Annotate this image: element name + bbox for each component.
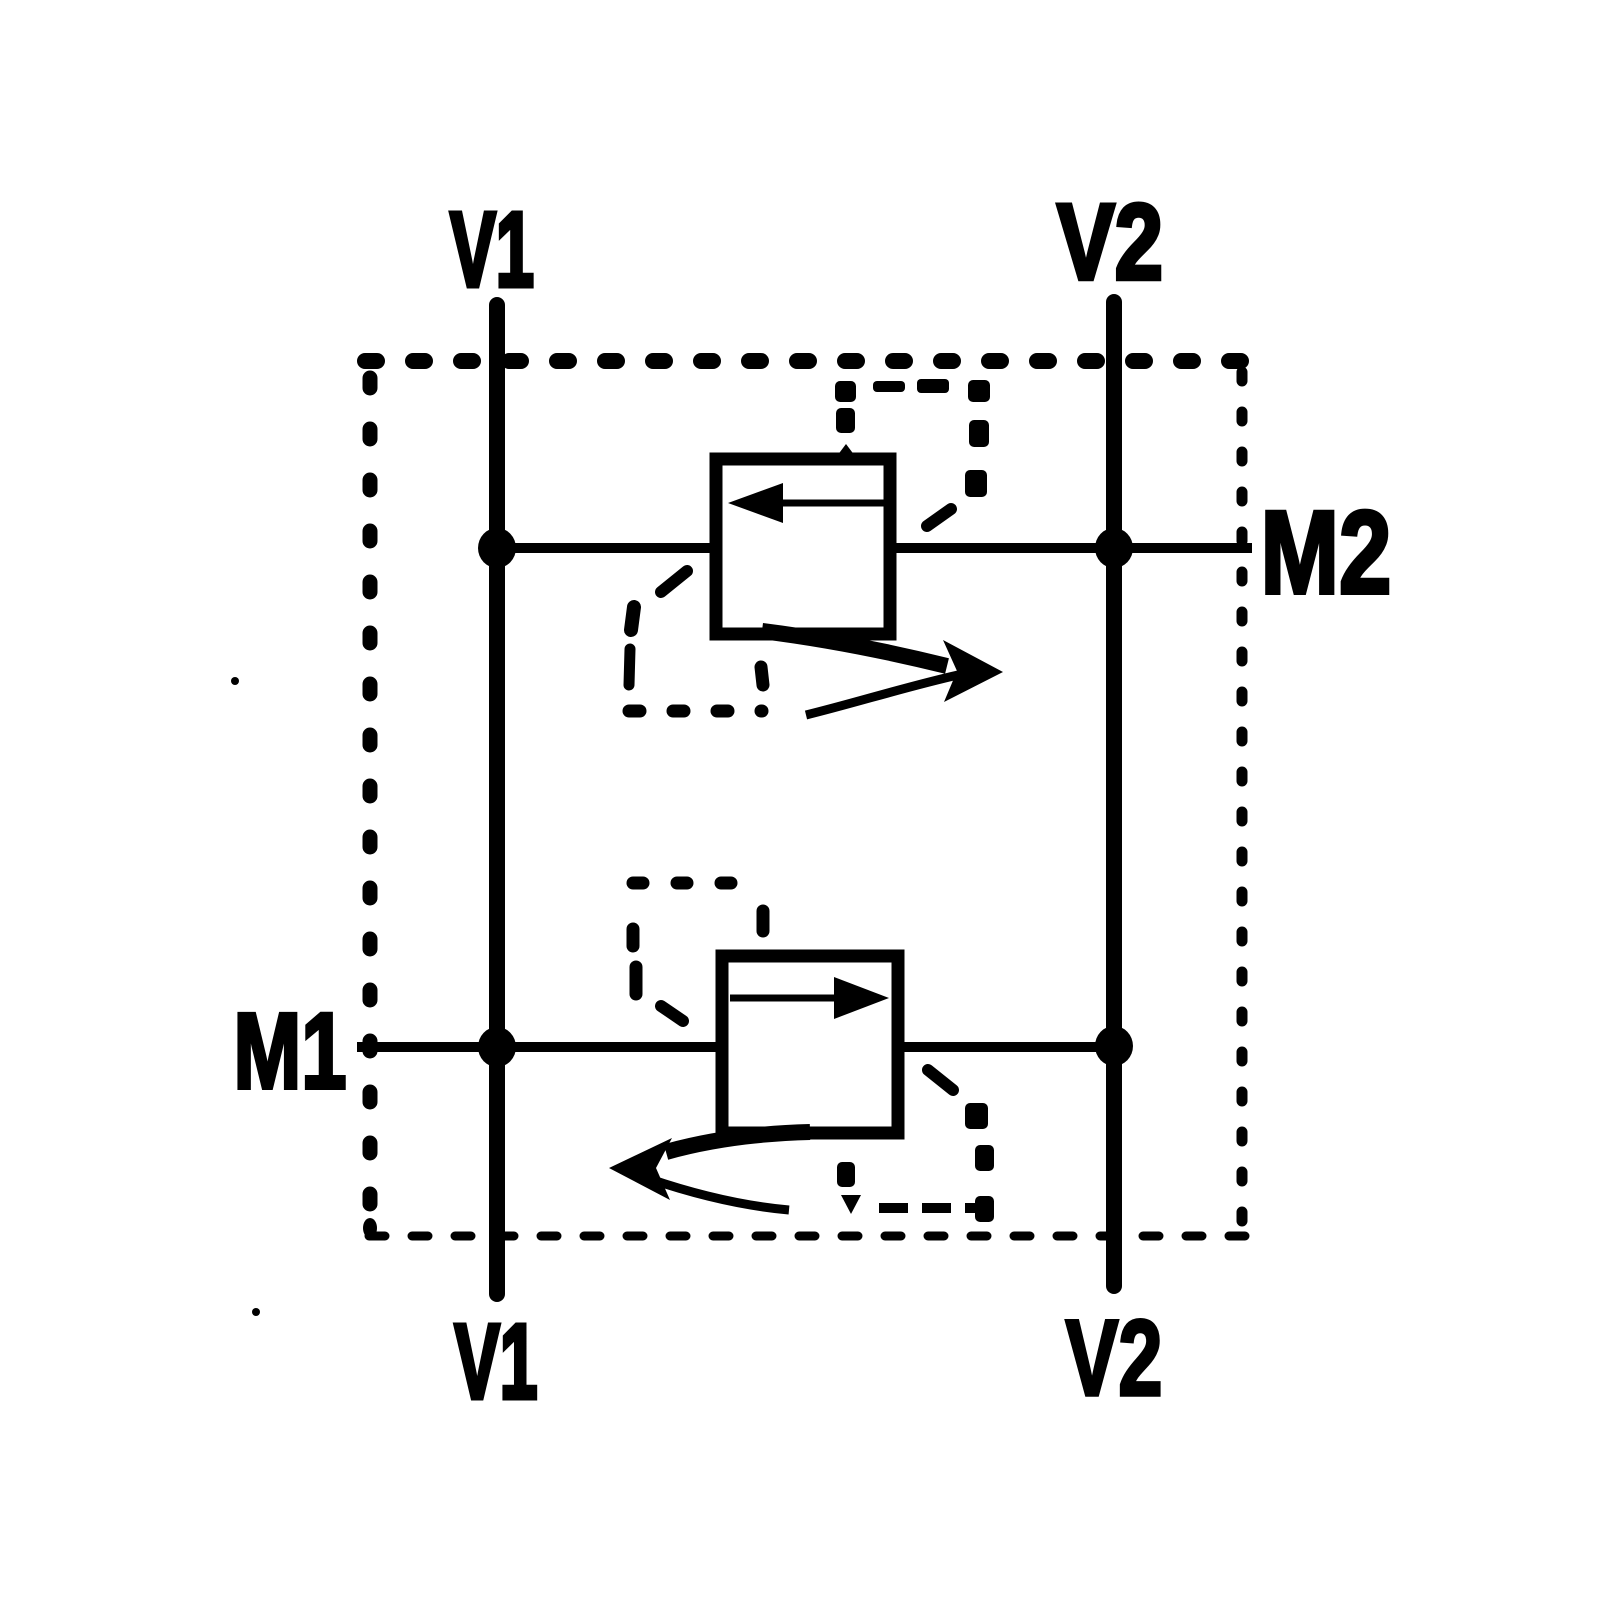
wire V1 vertical line [489, 305, 505, 1294]
svg-text:M2: M2 [1261, 487, 1392, 619]
svg-text:M1: M1 [234, 990, 347, 1111]
wire M1 horizontal line [357, 1042, 1114, 1052]
svg-text:V1: V1 [455, 1303, 538, 1421]
speck bottom left [252, 1308, 260, 1316]
enclosure dashed border top [365, 353, 1242, 369]
relief valve RV2 pilot dashed horizontal [879, 1203, 991, 1213]
wire V2 vertical line [1106, 302, 1122, 1286]
junction node V2-M1 [1095, 1026, 1133, 1066]
relief valve RV2 body [722, 956, 898, 1133]
relief valve RV2 flow arrow (right) [730, 977, 889, 1019]
relief valve RV2 spring adjust arrow [609, 1132, 810, 1210]
relief valve RV1 body [716, 459, 890, 634]
enclosure dashed border left [363, 378, 378, 1230]
relief valve RV1 pilot dashed diagonal to port [927, 509, 951, 526]
svg-text:V2: V2 [1057, 181, 1163, 302]
relief valve RV1 drain dashed bottom [629, 705, 762, 718]
relief valve RV2 drain dashed diagonal [661, 1006, 683, 1021]
svg-text:V1: V1 [450, 191, 534, 309]
relief valve RV1 drain dashed left vertical [629, 607, 634, 685]
enclosure dashed border bottom [369, 1232, 1245, 1241]
relief valve RV2 pilot arrowhead [841, 1195, 861, 1214]
speck left [231, 677, 239, 685]
relief valve RV2 drain dashed left vertical [633, 929, 636, 994]
junction node V1-M1 [478, 1027, 516, 1067]
relief valve RV1 flow arrow (left) [728, 483, 884, 523]
relief valve RV1 drain dashed riser [761, 667, 763, 685]
relief valve RV1 pilot dashed vertical [835, 381, 856, 433]
relief valve RV2 pilot dashed vertical [837, 1162, 855, 1187]
relief valve RV1 spring adjust arrow [762, 631, 1003, 715]
relief valve RV1 pilot dashed horizontal [873, 379, 949, 393]
relief valve RV2 drain dashed riser [757, 911, 770, 931]
relief valve RV1 pilot dashed descent [965, 380, 990, 497]
relief valve RV2 pilot dashed diagonal to port [928, 1070, 953, 1090]
wire M2 horizontal line [497, 543, 1252, 553]
relief valve RV2 pilot dashed ascent [965, 1103, 994, 1222]
junction node V2-M2 [1095, 528, 1133, 568]
enclosure dashed border right [1237, 372, 1248, 1226]
relief valve RV1 pilot arrow on top edge [831, 444, 861, 464]
relief valve RV2 drain dashed horizontal [633, 877, 765, 890]
svg-text:V2: V2 [1066, 1297, 1163, 1418]
enclosure left border corner dash [363, 1218, 377, 1238]
junction node V1-M2 [478, 528, 516, 568]
relief valve RV1 drain dashed diagonal [661, 571, 687, 592]
